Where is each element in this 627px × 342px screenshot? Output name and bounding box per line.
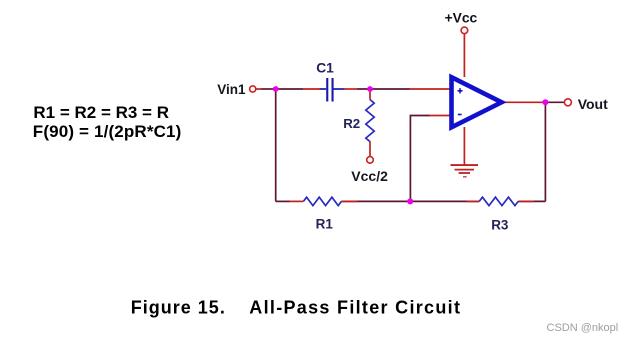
svg-text:C1: C1	[316, 60, 334, 75]
svg-text:Vout: Vout	[578, 96, 608, 112]
svg-text:All-Pass Filter Circuit: All-Pass Filter Circuit	[249, 297, 461, 317]
svg-text:CSDN @nkopl: CSDN @nkopl	[547, 322, 619, 334]
svg-text:R3: R3	[491, 218, 509, 233]
svg-text:Vcc/2: Vcc/2	[351, 168, 388, 184]
svg-text:R1: R1	[316, 217, 334, 232]
svg-text:Vin1: Vin1	[217, 82, 246, 97]
svg-text:+Vcc: +Vcc	[445, 11, 478, 26]
svg-text:Figure 15.: Figure 15.	[131, 297, 226, 317]
svg-text:F(90) = 1/(2pR*C1): F(90) = 1/(2pR*C1)	[33, 122, 182, 141]
svg-text:R2: R2	[343, 116, 360, 131]
svg-text:R1 = R2 = R3 = R: R1 = R2 = R3 = R	[33, 103, 169, 122]
